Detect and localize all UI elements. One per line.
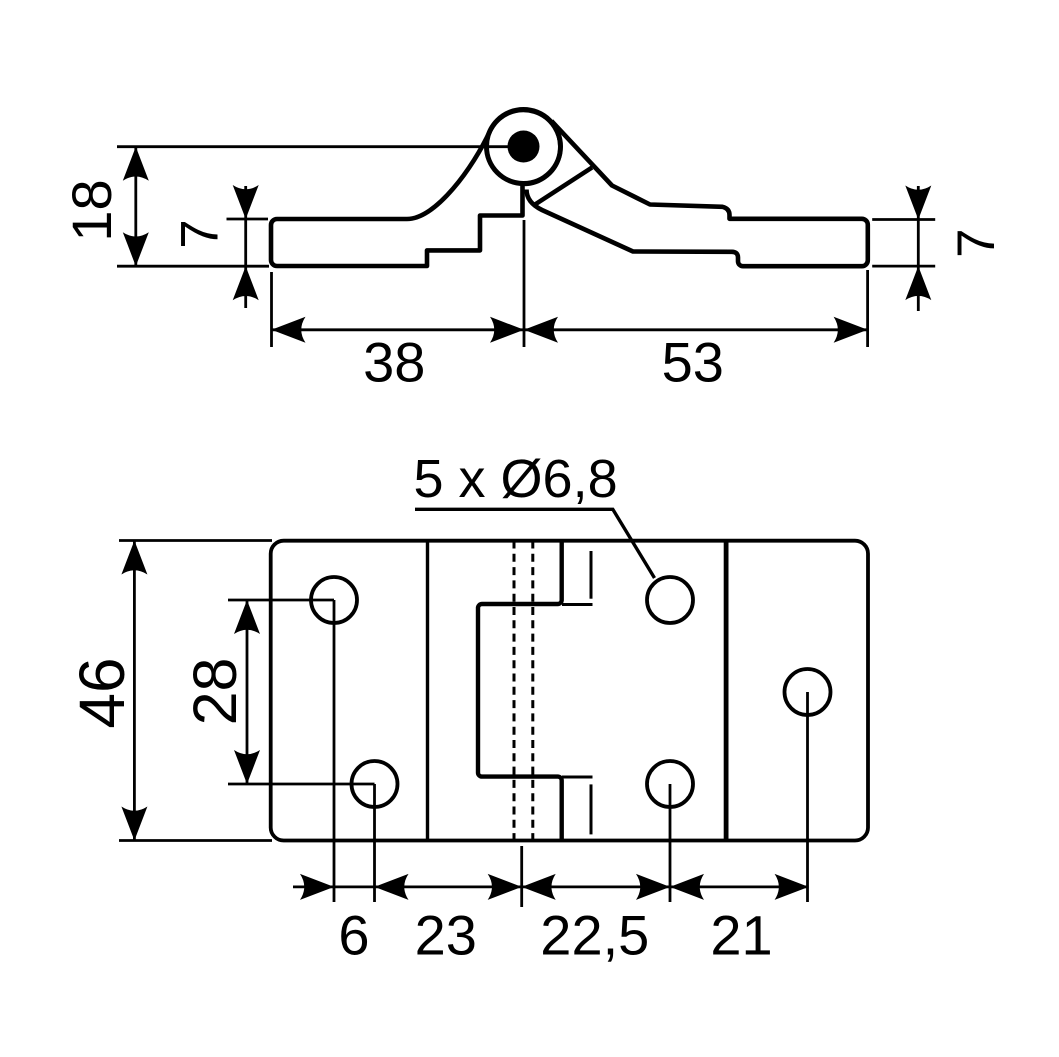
dimension 46 line	[133, 541, 136, 841]
left hinge leaf profile	[271, 110, 560, 266]
knuckle recess edge top	[562, 603, 593, 606]
right leaf fold line	[724, 541, 729, 841]
hole bottom-right	[647, 761, 693, 807]
svg-text:18: 18	[60, 179, 123, 241]
right knuckle edge tick top	[590, 551, 593, 599]
right knuckle edge tick bottom	[590, 784, 593, 834]
arrowheads 28	[234, 600, 260, 634]
svg-text:28: 28	[181, 658, 249, 726]
side view: extension line bottom of leaf (18 bottom / 7 bottom)	[117, 265, 269, 268]
svg-text:7: 7	[947, 228, 1006, 257]
arrowheads 46	[121, 541, 147, 575]
left leaf knuckle cut-out	[478, 541, 562, 841]
extension line top of right leaf end (7 right)	[872, 218, 935, 221]
extension lines 28	[228, 599, 334, 602]
leader line for hole note	[415, 509, 655, 578]
dimension 7 left line	[244, 186, 247, 308]
extension line left end of left leaf	[270, 272, 273, 347]
side view: extension line top of left leaf (7 left top)	[227, 218, 269, 221]
svg-text:21: 21	[710, 904, 772, 967]
arrowheads 23	[375, 874, 409, 900]
plan view: extension lines 46	[119, 541, 809, 908]
arrowheads chain: 6 outside left	[300, 874, 334, 900]
dimension 28 line	[246, 600, 249, 784]
pivot pin hidden lines (dashed)	[513, 541, 516, 841]
arrowheads 38	[272, 317, 306, 343]
arrowheads 7 right (outside)	[905, 186, 931, 220]
extension line right end of right leaf	[866, 270, 869, 347]
svg-text:5 x Ø6,8: 5 x Ø6,8	[414, 449, 618, 509]
hole far-right	[785, 669, 831, 715]
svg-text:22,5: 22,5	[540, 904, 649, 967]
hole centre extension lines down to chain dimension	[333, 600, 336, 902]
chain dimension line 6/23/22,5/21	[293, 886, 809, 889]
arrowheads 18	[123, 147, 149, 181]
dimension 38/53 line	[272, 328, 868, 331]
hole top-left	[311, 577, 357, 623]
pivot knuckle outer circle	[487, 110, 561, 184]
hinge plate outline (plan)	[271, 541, 868, 841]
right leaf fold edge	[535, 168, 592, 205]
extension line bottom of right leaf end (7 right)	[872, 265, 935, 268]
left leaf inner edge line	[426, 541, 429, 841]
svg-text:38: 38	[363, 331, 425, 394]
dimension 18 line	[134, 147, 137, 267]
hole top-right	[647, 577, 693, 623]
knuckle recess edge bottom	[562, 776, 593, 779]
svg-text:7: 7	[171, 219, 230, 248]
side view: extension line through pivot axis (18 top)	[117, 147, 935, 347]
svg-text:6: 6	[338, 904, 369, 967]
svg-text:23: 23	[415, 904, 477, 967]
arrowheads 7 left (outside)	[233, 185, 259, 219]
svg-text:53: 53	[662, 331, 724, 394]
extension line pivot centre	[523, 220, 526, 347]
dimension 7 right line	[917, 186, 920, 311]
right hinge leaf profile	[527, 121, 868, 266]
hole bottom-left	[352, 761, 398, 807]
arrowheads 53	[524, 317, 558, 343]
svg-text:46: 46	[66, 657, 138, 728]
arrowheads 22,5	[522, 874, 556, 900]
arrowheads 21	[670, 874, 704, 900]
pivot pin	[508, 131, 540, 163]
